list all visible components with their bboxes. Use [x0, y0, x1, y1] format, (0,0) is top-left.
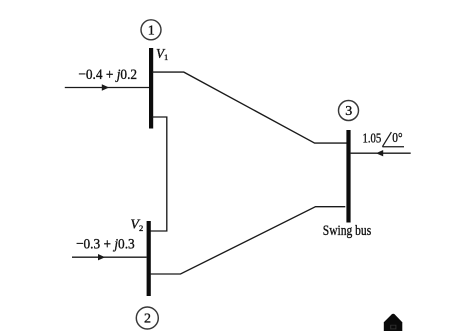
- node 2 circle: [136, 307, 158, 329]
- page corner mark: [384, 314, 403, 331]
- label 1.05 angle 0deg: [363, 131, 405, 147]
- svg-text:−0.4 + j0.2: −0.4 + j0.2: [78, 66, 137, 83]
- node 1 circle: [141, 20, 161, 40]
- node 3 circle: [339, 101, 359, 121]
- svg-text:−0.3 + j0.3: −0.3 + j0.3: [76, 235, 135, 252]
- svg-text:1: 1: [148, 23, 155, 38]
- svg-text:V1: V1: [156, 46, 168, 62]
- svg-text:V2: V2: [130, 217, 143, 233]
- svg-text:0°: 0°: [392, 131, 402, 146]
- wire bus1 to bus2: [150, 117, 167, 231]
- bus 3 bar: [346, 130, 350, 223]
- bus 1 bar: [149, 48, 153, 129]
- svg-text:3: 3: [345, 104, 352, 119]
- svg-text:1.05: 1.05: [363, 132, 382, 147]
- bus 2 bar: [147, 221, 151, 296]
- svg-text:Swing bus: Swing bus: [323, 223, 372, 239]
- wire bus1 to bus3: [152, 72, 347, 143]
- wire arrow injection bus 1: [65, 84, 149, 90]
- wire bus2 to bus3: [150, 207, 345, 274]
- wire arrow injection bus 2: [72, 254, 147, 260]
- wire arrow injection bus 3: [351, 150, 411, 156]
- svg-text:2: 2: [144, 312, 151, 327]
